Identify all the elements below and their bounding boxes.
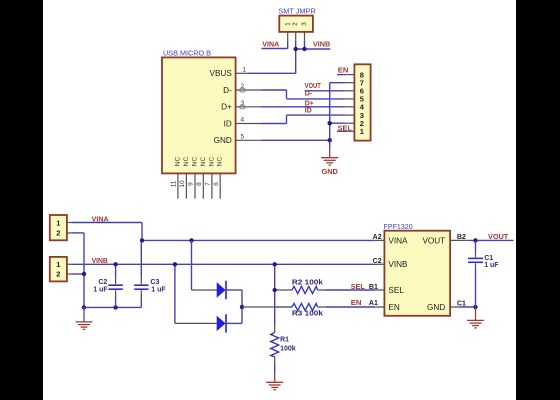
USB pin 5 stub [236,139,262,141]
svg-text:VINB: VINB [388,260,408,269]
svg-text:1 uF: 1 uF [93,286,108,293]
junction node diode cathodes [240,305,244,309]
capacitor C3 [134,243,148,308]
wire ID from USB [262,123,287,125]
svg-text:EN: EN [351,300,362,307]
junction node C2 top / VINB [113,262,117,266]
wire jumper pin3 down [304,41,306,49]
junction node VINB/diode branch [173,262,177,266]
USB pin 2 stub [236,89,262,91]
SMT jumper JP1 body [279,16,313,32]
diode D1 (upper) [217,281,226,299]
svg-text:D-: D- [305,91,313,98]
header J2 body [354,64,370,140]
USB connector J1 body [162,57,236,173]
junction node R1/VINB [273,262,277,266]
junction node usb-gnd/gnd vertical [328,138,332,142]
svg-text:1: 1 [360,127,364,136]
wire header pin2 to gnd vertical [330,122,346,124]
svg-text:2: 2 [56,229,60,238]
diode D2 (lower) [217,314,226,332]
svg-text:R2 100k: R2 100k [292,279,323,286]
svg-text:GND: GND [214,136,232,145]
svg-text:2: 2 [241,83,245,90]
junction node C2 bottom [113,305,117,309]
capacitor C2 [108,264,122,307]
svg-text:GND: GND [321,167,338,176]
svg-text:C1: C1 [457,300,466,307]
svg-text:1: 1 [243,67,247,74]
svg-text:USB MICRO B: USB MICRO B [163,49,211,58]
svg-text:2: 2 [56,270,60,279]
svg-text:NC: NC [174,157,181,167]
ground symbol (C1/FPF gnd) [467,307,484,328]
svg-text:C2: C2 [373,258,382,265]
diode D2 anode wire [175,322,217,324]
svg-text:7: 7 [205,182,212,186]
connector J3 pin 1 stub [67,222,72,224]
svg-text:D+: D+ [305,100,314,107]
ground symbol (input caps) [76,307,93,329]
junction node J4 pin2/ground vertical [82,272,86,276]
junction node VOUT/C1 [473,238,477,242]
junction node ground corner [82,305,86,309]
svg-text:1: 1 [56,218,60,227]
svg-text:10: 10 [179,180,186,188]
svg-text:EN: EN [388,303,399,312]
wire jumper pin2 down [295,41,297,74]
wire gnd down from junction [329,140,331,149]
USB pin 2 alternate-pad circle [239,88,245,92]
svg-text:NC: NC [183,157,190,167]
junction node R1/R2 [273,288,277,292]
svg-text:1 uF: 1 uF [484,262,499,269]
svg-text:GND: GND [427,303,445,312]
wire VINA branch down to diode D1 [191,240,193,290]
svg-text:VINA: VINA [388,236,408,245]
wire gnd bottom horizontal [84,306,141,308]
ground symbol (R1) [266,374,283,390]
svg-text:A2: A2 [373,234,382,241]
FPF pin stub A2 [375,239,384,241]
wire J3 pin2 vertical to ground [83,233,85,308]
svg-text:B2: B2 [457,234,466,241]
capacitor C1 [468,240,483,307]
wire VINB branch down to diode D2 [174,264,176,323]
svg-text:VBUS: VBUS [210,69,233,78]
svg-text:6: 6 [213,182,220,186]
USB NC pin name x6 [174,157,223,167]
junction node pin2/gnd vertical [328,121,332,125]
jumper pin 1 stub [287,32,289,41]
wire EN stub at header pin 8 [337,74,345,76]
jumper pin 3 stub [304,32,306,41]
wire VINB horizontal top [296,48,331,50]
resistor R3 [275,303,326,310]
wire VOUT to header pin 6 [305,90,346,92]
svg-text:EN: EN [338,68,349,75]
svg-text:4: 4 [241,117,245,124]
jumper pin 2 stub [295,32,297,41]
wire D+ to header pin 4 [262,106,346,108]
wire J3 pin2 right [71,232,84,234]
wire D- step down [286,90,288,99]
svg-text:VINA: VINA [262,42,279,49]
wire VINB row to FPF1320 [71,263,375,265]
resistor R1 [271,264,279,374]
svg-text:11: 11 [171,180,178,187]
junction node VINA/C3 [140,238,144,242]
FPF pin stub A1 [375,306,384,308]
svg-text:R3 100k: R3 100k [292,310,323,317]
wire VINA horizontal top [262,48,288,50]
wire joining diode cathodes [241,290,243,323]
svg-text:VOUT: VOUT [305,83,322,90]
svg-text:NC: NC [200,157,207,167]
connector J3 body (VINA input) [50,215,67,240]
junction node jumper pin2/VINB [294,47,298,51]
wire GND from USB [262,139,330,141]
svg-text:SMT JMPR: SMT JMPR [278,6,316,15]
header pin stubs x8 [345,75,354,132]
svg-text:VOUT: VOUT [488,234,509,241]
connector J3 pin 2 stub [67,232,72,234]
wire R3 to FPF EN [326,306,375,308]
USB NC pin stubs x6 [178,173,220,198]
wire SEL stub at header pin 1 [337,130,345,132]
junction node C1 bottom/gnd [473,305,477,309]
svg-text:ID: ID [305,108,312,115]
svg-text:100k: 100k [280,345,296,352]
svg-text:SEL: SEL [351,284,365,291]
wire J4 pin2 to ground vertical [71,273,84,275]
svg-text:NC: NC [192,157,199,167]
wire jumper pin1 down to VINA [287,41,289,49]
USB pin 4 stub [236,123,262,125]
diode D1 anode wire [192,289,217,291]
svg-text:2: 2 [292,22,299,26]
svg-text:5: 5 [241,134,245,141]
USB pin 3 alternate-pad circle [239,105,245,109]
diode D2 cathode wire [226,322,242,324]
FPF pin stub C2 [375,263,384,265]
FPF1320 U1 body [384,231,450,316]
junction node VINA/diode branch [189,238,193,242]
USB pin 1 stub [236,72,247,74]
connector J4 pin 1 stub [67,263,72,265]
diode D1 cathode wire [226,289,242,291]
svg-text:9: 9 [188,182,195,186]
svg-text:C2: C2 [98,279,107,286]
ground symbol (header) [321,149,338,165]
svg-text:SEL: SEL [338,126,352,133]
svg-text:3: 3 [301,22,308,26]
svg-text:8: 8 [196,182,203,186]
wire diodes to R3 [242,306,292,308]
svg-text:A1: A1 [369,300,378,307]
wire gnd vertical beside header [329,83,331,141]
connector J4 pin 2 stub [67,273,72,275]
svg-text:D+: D+ [221,103,232,112]
wire VOUT [469,239,514,241]
FPF pin stub B1 [375,289,384,291]
wire D- from USB [262,89,287,91]
wire header pin7 to gnd vertical [330,82,346,84]
USB NC pin numbers 11,10,9,8,7,6 [171,180,220,188]
svg-text:C1: C1 [484,255,493,262]
wire D- to header pin 5 [287,98,346,100]
junction node jumper pin3/VINB [302,47,306,51]
svg-text:1: 1 [56,260,60,269]
svg-text:ID: ID [224,119,232,128]
wire VINA horizontal lower [71,222,142,224]
svg-text:C3: C3 [150,279,159,286]
svg-text:D-: D- [223,86,232,95]
left black letterbox bar [0,0,43,400]
svg-text:NC: NC [208,157,215,167]
svg-text:VINB: VINB [313,42,330,49]
svg-text:SEL: SEL [388,286,404,295]
wire FPF GND to C1 [459,306,475,308]
wire ID to header pin 3 [287,114,346,116]
USB pin 3 stub [236,106,262,108]
svg-text:R1: R1 [280,336,289,343]
wire VBUS to jumper [247,72,296,74]
resistor R2 [275,286,326,293]
svg-text:1 uF: 1 uF [151,286,166,293]
wire VINA row to FPF1320 [142,239,375,241]
svg-text:3: 3 [241,100,245,107]
FPF pin stub B2 (VOUT) [450,239,469,241]
header pin digits 8..1 [360,70,365,136]
wire ID step up [286,115,288,123]
svg-text:VOUT: VOUT [422,236,445,245]
wire R2 to FPF SEL [326,289,375,291]
wire VINA corner down [141,223,143,241]
svg-text:1: 1 [285,22,292,26]
right black letterbox bar [516,0,560,400]
connector J4 body (VINB input) [50,257,67,282]
FPF pin stub C1 (GND) [450,306,459,308]
svg-text:NC: NC [217,157,224,167]
